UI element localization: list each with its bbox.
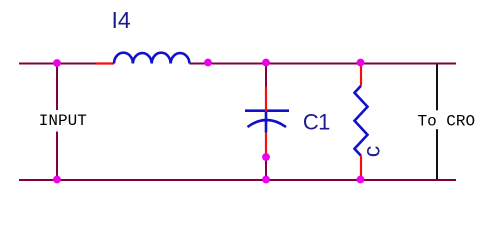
wire output branch lower segment (black) — [436, 129, 438, 179]
wire inductor left pin (red) — [96, 62, 114, 64]
node dot resistor bottom junction — [357, 176, 365, 184]
svg-text:To CRO: To CRO — [418, 113, 476, 131]
wire top rail left segment — [19, 63, 96, 65]
node dot inductor output junction — [204, 59, 212, 67]
node dot resistor top junction — [357, 59, 365, 67]
wire bottom rail — [19, 179, 456, 181]
wire top rail right segment — [190, 63, 457, 65]
capacitor C1 — [245, 109, 289, 112]
node dot input bottom junction — [53, 176, 61, 184]
svg-text:c: c — [359, 146, 385, 158]
capacitor C1 top pin (red) — [265, 87, 267, 112]
capacitor C1 bottom plate (arc) — [248, 112, 287, 133]
wire input branch upper segment — [56, 63, 58, 111]
wire capacitor branch bottom (maroon) — [265, 157, 267, 180]
resistor R (label c) — [355, 86, 368, 156]
wire output branch upper segment (black) — [436, 65, 438, 111]
node dot capacitor top junction — [262, 59, 270, 67]
node dot input top junction — [53, 59, 61, 67]
capacitor C1 bottom pin (red) — [265, 133, 267, 157]
wire capacitor branch top (maroon) — [265, 63, 267, 87]
svg-text:I4: I4 — [112, 7, 131, 33]
svg-text:INPUT: INPUT — [39, 112, 87, 130]
node dot capacitor bottom junction — [262, 176, 270, 184]
wire input branch lower segment — [56, 132, 58, 181]
node dot capacitor bottom pin — [262, 153, 270, 161]
resistor top pin (red) — [360, 63, 362, 86]
svg-text:C1: C1 — [303, 109, 330, 134]
resistor bottom pin (red) — [360, 156, 362, 180]
inductor I4 — [114, 53, 190, 64]
